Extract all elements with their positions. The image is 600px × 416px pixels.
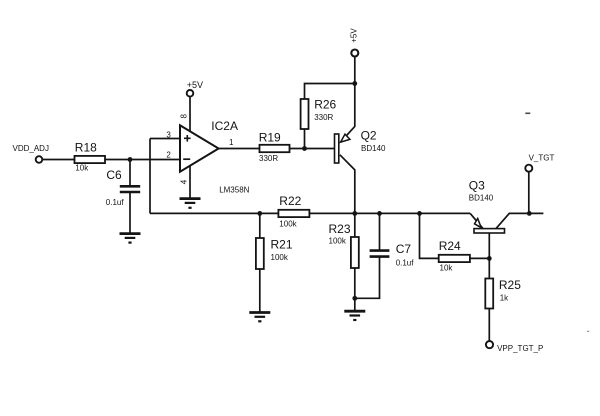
stray dot artifact — [587, 331, 589, 332]
svg-text:0.1uf: 0.1uf — [396, 259, 415, 268]
resistor R26 — [301, 97, 337, 129]
node junction C7 top — [377, 211, 382, 216]
svg-text:R26: R26 — [314, 97, 336, 111]
resistor R19 — [259, 131, 290, 164]
svg-text:R24: R24 — [439, 239, 461, 253]
svg-text:Q3: Q3 — [469, 178, 485, 192]
wire Q3 emitter — [470, 213, 483, 228]
wire R23 bottom — [354, 268, 356, 298]
ground (C6) — [120, 234, 141, 243]
node junction +5V/R26/Q2 emitter — [352, 81, 357, 86]
terminal VPP_TGT_P — [486, 341, 543, 353]
svg-text:R23: R23 — [329, 222, 351, 236]
wire R26 top to +5V rail — [305, 84, 355, 100]
svg-text:10k: 10k — [75, 164, 89, 173]
op-amp IC2A — [180, 119, 250, 194]
svg-text:3: 3 — [166, 130, 171, 139]
terminal +5V (Q2) — [350, 28, 359, 57]
node junction R24 branch — [417, 211, 422, 216]
wire junction to C6 — [129, 160, 131, 187]
wire R21 top — [259, 213, 261, 238]
terminal VDD_ADJ — [13, 144, 49, 163]
pin 4 label — [179, 179, 188, 184]
wire R23 top — [354, 213, 356, 237]
wire Q3 base — [488, 233, 490, 258]
node junction Q3 base / R24 / R25 — [487, 256, 492, 261]
wire VDD_ADJ to R18 — [43, 159, 75, 161]
node junction R21 — [257, 211, 262, 216]
resistor R21 — [256, 238, 293, 270]
svg-text:8: 8 — [180, 114, 189, 119]
wire op-amp output pin 1 — [219, 148, 260, 150]
svg-text:100k: 100k — [329, 237, 347, 246]
wire +5V to junction — [354, 57, 356, 84]
wire pin 4 — [189, 166, 191, 198]
wire R21 bottom — [259, 269, 261, 312]
capacitor C6 — [106, 168, 140, 207]
svg-text:R19: R19 — [259, 131, 281, 145]
svg-text:Q2: Q2 — [361, 128, 377, 142]
node junction R19/R26 — [302, 146, 307, 151]
wire Q3 collector — [496, 213, 543, 228]
svg-text:0.1uf: 0.1uf — [106, 198, 125, 207]
svg-text:10k: 10k — [440, 264, 454, 273]
wire R26 bottom — [304, 129, 306, 149]
wire R25 bottom — [488, 309, 490, 342]
resistor R24 — [439, 239, 470, 273]
svg-text:+5V: +5V — [187, 80, 203, 90]
wire pin 8 — [189, 97, 191, 131]
pin 1 label — [229, 138, 234, 147]
wire R18 to op-amp pin 2 — [105, 159, 180, 161]
transistor Q3 — [469, 178, 505, 233]
node junction V_TGT — [527, 211, 532, 216]
wire R19 to Q2 base — [290, 148, 335, 150]
terminal V_TGT — [525, 154, 554, 172]
wire V_TGT down — [528, 172, 530, 214]
svg-text:R25: R25 — [499, 278, 521, 292]
transistor Q2 — [335, 128, 387, 163]
svg-text:IC2A: IC2A — [211, 119, 238, 133]
svg-text:100k: 100k — [271, 253, 289, 262]
wire C7 top — [379, 213, 381, 250]
resistor R22 — [278, 194, 309, 228]
svg-text:C6: C6 — [106, 168, 122, 182]
resistor R18 — [75, 140, 106, 172]
svg-text:100k: 100k — [279, 219, 297, 228]
wire junction to ground — [354, 298, 356, 311]
node junction R23/C7 bottom — [352, 296, 357, 301]
svg-text:R21: R21 — [271, 238, 293, 252]
svg-text:VPP_TGT_P: VPP_TGT_P — [497, 344, 543, 353]
node junction R18/C6 — [128, 157, 133, 162]
svg-text:C7: C7 — [396, 242, 412, 256]
svg-text:330R: 330R — [314, 113, 333, 122]
ground (R23/C7) — [344, 311, 365, 320]
ground (op-amp pin 4) — [180, 199, 201, 208]
wire R25 top — [488, 258, 490, 278]
svg-text:R22: R22 — [279, 194, 301, 208]
wire C6 to ground — [129, 192, 131, 233]
svg-text:LM358N: LM358N — [219, 185, 249, 194]
terminal +5V (op-amp) — [187, 80, 203, 97]
svg-text:1: 1 — [229, 138, 234, 147]
svg-text:1k: 1k — [500, 293, 509, 302]
resistor R23 — [329, 222, 359, 268]
pin 3 label — [166, 130, 171, 139]
capacitor C7 — [370, 242, 415, 267]
wire rail left segment — [150, 212, 278, 214]
pin 2 label — [166, 151, 171, 160]
wire Q2 emitter — [340, 84, 354, 143]
wire R24 to Q3 base node — [470, 257, 489, 259]
svg-text:4: 4 — [179, 179, 188, 184]
stray dash artifact — [525, 113, 530, 115]
svg-text:+5V: +5V — [350, 28, 359, 43]
wire feedback pin 3 down to rail — [149, 139, 151, 214]
svg-text:VDD_ADJ: VDD_ADJ — [13, 144, 49, 153]
svg-text:2: 2 — [166, 151, 171, 160]
wire C7 bottom to R23 bottom — [355, 257, 380, 299]
resistor R25 — [485, 278, 521, 308]
svg-text:R18: R18 — [75, 140, 97, 154]
svg-text:V_TGT: V_TGT — [529, 154, 555, 163]
wire op-amp pin 3 — [150, 138, 180, 140]
wire rail right segment — [309, 212, 470, 214]
svg-text:BD140: BD140 — [469, 194, 494, 203]
svg-text:BD140: BD140 — [361, 144, 386, 153]
svg-text:330R: 330R — [259, 154, 278, 163]
node junction Q2 collector / R23 — [352, 211, 357, 216]
wire Q2 collector — [340, 155, 355, 214]
ground (R21) — [249, 313, 270, 322]
wire R24 branch down and right — [420, 213, 439, 258]
pin 8 label — [180, 114, 189, 119]
